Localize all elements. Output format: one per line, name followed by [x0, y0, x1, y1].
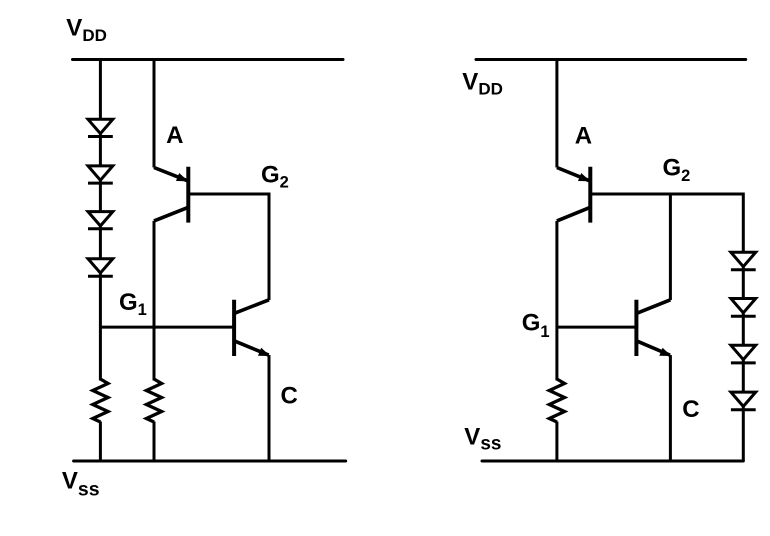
diode D7 (right chain) — [731, 345, 756, 363]
svg-text:VDD: VDD — [66, 15, 107, 45]
resistor R3 (right) — [549, 379, 564, 422]
transistor Q4 NPN (right): collector — [636, 300, 670, 314]
svg-text:C: C — [682, 396, 699, 423]
wire: node A vertical (left) — [153, 58, 156, 168]
transistor Q2 NPN (left): emitter — [234, 341, 269, 355]
wire: G2 corner down to Q2 collector (left) — [268, 193, 271, 301]
VSS rail (left circuit) — [74, 460, 346, 463]
diode D6 (right chain) — [731, 299, 756, 317]
svg-text:Vss: Vss — [62, 467, 100, 500]
svg-text:C: C — [281, 383, 298, 410]
transistor Q1 PNP (left): emitter arrowhead — [176, 173, 188, 181]
VDD rail (left circuit) — [73, 58, 344, 61]
wire: Q3 collector down through G1 to resistor R3 (right) — [555, 221, 558, 381]
svg-text:A: A — [575, 122, 592, 149]
wire: G2 junction down to Q4 collector (right) — [669, 194, 672, 300]
transistor Q1 PNP (left): emitter — [154, 168, 187, 181]
transistor Q2 NPN (left): emitter arrowhead — [258, 348, 270, 356]
transistor Q1 PNP (left): collector — [154, 207, 188, 221]
transistor Q3 PNP (right): collector — [557, 207, 590, 221]
transistor Q4 NPN (right): emitter — [636, 341, 670, 355]
diode D1 (left chain) — [88, 119, 113, 136]
svg-text:A: A — [166, 122, 183, 149]
wire: resistor R2 bottom to VSS rail (left) — [153, 422, 156, 462]
wire: diode-chain vertical segments (left) — [99, 58, 102, 461]
transistor Q2 NPN (left): base bar — [232, 300, 236, 356]
wire: base of Q1 to G2 corner (left) — [188, 193, 269, 196]
svg-text:G1: G1 — [119, 289, 147, 319]
VSS rail (right circuit) — [482, 460, 743, 463]
wire: Q4 emitter down to VSS (right) — [669, 355, 672, 461]
svg-text:G2: G2 — [261, 162, 289, 192]
resistor R1 (left) — [93, 379, 108, 422]
wire: Q2 emitter down to VSS (left) — [268, 355, 271, 461]
node G1 wire (right) — [557, 326, 637, 329]
svg-text:G2: G2 — [663, 155, 691, 185]
svg-text:Vss: Vss — [464, 423, 501, 454]
node G1 wire (left) — [100, 326, 234, 329]
svg-text:G1: G1 — [522, 310, 550, 341]
diode D2 (left chain) — [88, 166, 113, 183]
transistor Q1 PNP (left): base bar — [186, 167, 190, 223]
wire: Q1 collector down through G1 to resistor R2 (left) — [153, 221, 156, 381]
wire: base of Q3 to right diode chain (right) — [590, 193, 743, 196]
transistor Q3 PNP (right): emitter — [557, 168, 589, 181]
wire: right diode chain vertical segments — [742, 193, 745, 462]
diode D3 (left chain) — [88, 212, 113, 229]
transistor Q4 NPN (right): base bar — [634, 300, 638, 356]
svg-text:VDD: VDD — [462, 69, 503, 99]
transistor Q4 NPN (right): emitter arrowhead — [659, 348, 671, 356]
VDD rail (right circuit) — [476, 58, 746, 61]
transistor Q3 PNP (right): emitter arrowhead — [578, 173, 590, 181]
diode D5 (right chain) — [731, 252, 756, 269]
diode D8 (right chain) — [731, 392, 756, 410]
wire: resistor R3 bottom to VSS rail (right) — [555, 422, 558, 462]
diode D4 (left chain) — [88, 259, 113, 277]
resistor R2 (left) — [146, 379, 161, 422]
wire: node A vertical (right) — [555, 58, 558, 168]
transistor Q3 PNP (right): base bar — [588, 167, 592, 223]
transistor Q2 NPN (left): collector — [234, 300, 269, 314]
